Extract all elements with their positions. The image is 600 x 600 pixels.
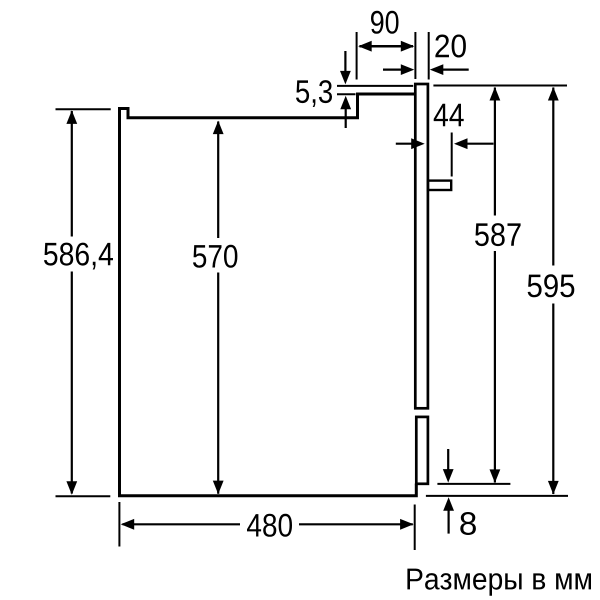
label 8: [460, 512, 476, 535]
dimension arrow shaft 44 left: [396, 143, 413, 145]
arrowhead 595 down: [548, 481, 559, 495]
label 20: [435, 35, 466, 58]
dimension line 595: [552, 88, 554, 495]
arrowhead 595 up: [548, 87, 559, 101]
door upper panel: [415, 84, 428, 408]
dimension line 480: [123, 523, 413, 525]
extension line 586,4 bottom: [56, 495, 111, 497]
dimension arrow shaft 8 top: [447, 449, 449, 471]
label 5,3: [296, 80, 332, 107]
arrowhead 5,3 up: [340, 96, 351, 110]
label 570: [193, 245, 237, 268]
arrowhead 480 left: [121, 519, 135, 530]
dimension arrow shaft 8 bottom: [448, 511, 450, 534]
label 595: [528, 274, 575, 297]
arrowhead 44 right: [454, 138, 468, 149]
extension line 480 right: [414, 505, 416, 551]
arrowhead 587 down: [490, 469, 501, 483]
extension line body step (5,3 lower): [337, 93, 356, 95]
dimension arrow shaft 5,3 bottom: [345, 108, 347, 129]
arrowhead 20 right: [430, 64, 444, 75]
arrowhead 587 up: [490, 87, 501, 101]
extension line body bottom (8 lower / 595): [426, 495, 568, 497]
extension line door top right: [433, 85, 567, 87]
door lower panel: [416, 417, 428, 484]
extension line 586,4 top: [56, 108, 111, 110]
arrowhead 90 right: [401, 41, 415, 52]
dimension arrow shaft 20 right: [441, 68, 469, 70]
extension line 20 right: [428, 32, 430, 80]
arrowhead 570 up: [213, 121, 224, 135]
dimension arrow shaft 20 left: [383, 68, 403, 70]
arrowhead 586,4 up: [66, 110, 77, 124]
label 44: [434, 104, 464, 126]
extension line 480 left: [118, 502, 120, 547]
dimension line 587: [494, 88, 496, 483]
arrowhead 8 down: [443, 469, 454, 483]
extension line door bottom (8 upper): [437, 483, 510, 485]
dimension arrow shaft 44 right: [466, 143, 494, 145]
extension line door top left: [337, 85, 413, 87]
arrowhead 5,3 down: [340, 71, 351, 85]
arrowhead 8 up: [443, 497, 454, 511]
label 586,4: [44, 243, 113, 270]
dimension line 586,4: [71, 111, 73, 494]
arrowhead 570 down: [213, 481, 224, 495]
label 480: [247, 514, 292, 537]
label 90: [371, 11, 399, 34]
dimension arrow shaft 5,3 top: [344, 51, 346, 73]
arrowhead 44 left: [411, 138, 425, 149]
extension line 44: [451, 133, 453, 177]
arrowhead 586,4 down: [66, 481, 77, 495]
label mm: [407, 569, 591, 596]
dimension line 570: [217, 122, 219, 494]
extension line 90 right / 20 left: [414, 32, 416, 79]
arrowhead 20 left: [401, 64, 415, 75]
oven body outline: [120, 94, 415, 497]
oven body bottom edge: [118, 484, 416, 496]
mounting bracket: [428, 181, 451, 190]
label 587: [475, 223, 521, 246]
dimension line 90: [360, 45, 414, 48]
arrowhead 480 right: [400, 519, 414, 530]
extension line 90 left: [356, 32, 358, 80]
arrowhead 90 left: [358, 41, 372, 52]
